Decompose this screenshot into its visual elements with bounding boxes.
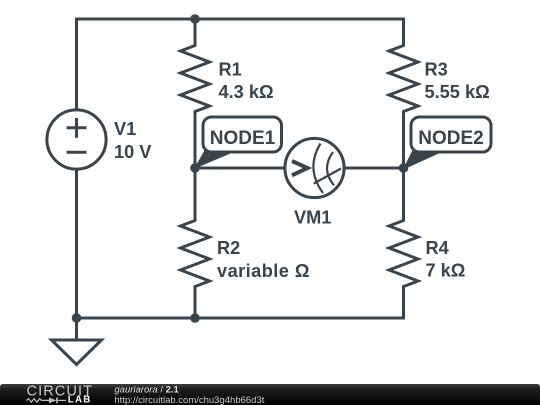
svg-text:NODE1: NODE1 [210,128,276,149]
svg-text:NODE2: NODE2 [418,128,483,149]
svg-text:R3: R3 [425,60,448,80]
wire left vertical [75,18,78,111]
CircuitLab logo diode [49,398,66,404]
junction dot node2 [399,163,409,173]
CircuitLab logo text CIRCUIT [27,383,94,399]
junction dot bottom mid [190,313,200,323]
footer bar [0,384,540,405]
CircuitLab logo resistor zigzag [27,399,49,403]
svg-text:R4: R4 [426,238,450,258]
label VM1 [294,208,331,228]
svg-text:variable Ω: variable Ω [217,261,310,281]
wire bottom horizontal [77,317,404,320]
resistor R4 [389,168,418,318]
svg-text:R2: R2 [217,238,240,258]
label R4 value [426,238,466,281]
svg-text:R1: R1 [219,60,242,80]
svg-text:V1: V1 [114,119,136,139]
svg-text:http://circuitlab.com/chu3g4hb: http://circuitlab.com/chu3g4hb66d3t [114,395,264,405]
svg-text:7 kΩ: 7 kΩ [426,261,466,281]
label R2 value [217,238,310,281]
wire right vertical top [402,18,405,46]
footer author line [114,385,179,396]
svg-text:5.55 kΩ: 5.55 kΩ [425,82,490,102]
label R1 value [219,60,274,103]
voltmeter VM1 [285,138,344,197]
wire left vertical lower [75,169,78,318]
svg-text:10 V: 10 V [114,142,151,162]
svg-text:4.3 kΩ: 4.3 kΩ [219,82,274,102]
voltage source V1 [47,110,106,169]
wire middle horizontal right [344,167,404,170]
ground [52,318,102,365]
wire top horizontal [77,18,404,21]
junction dot node1 [190,163,200,173]
svg-text:VM1: VM1 [294,208,331,228]
label V1 value [114,119,151,162]
node NODE2 flag [404,117,492,169]
wire right vertical mid [402,112,405,169]
resistor R3 [389,19,418,168]
resistor R2 [181,168,210,318]
wire right vertical bottom [402,287,405,320]
svg-text:LAB: LAB [68,395,92,405]
junction dot top [190,14,200,24]
label R3 value [425,60,490,103]
resistor R1 [181,19,210,168]
CircuitLab logo text LAB [68,395,92,405]
footer url line [114,395,264,405]
node NODE1 flag [195,117,282,168]
wire middle horizontal left [195,167,285,170]
junction dot ground [72,313,82,323]
